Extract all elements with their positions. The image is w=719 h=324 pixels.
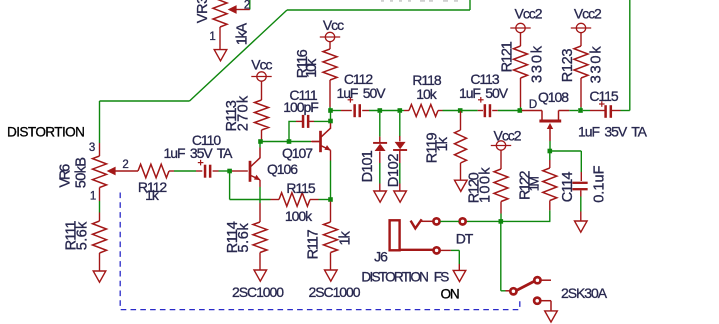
value 1uF 35V TA [164,145,234,161]
svg-text:DISTORTION: DISTORTION [7,125,84,140]
svg-text:330k: 330k [530,44,546,83]
svg-text:ON: ON [441,286,459,301]
ground [453,270,466,281]
label R119 [424,133,440,164]
svg-text:2: 2 [122,159,128,171]
resistor R117 [324,202,338,271]
svg-text:1M: 1M [528,177,542,192]
label R122 [518,171,534,200]
node [518,108,523,113]
wire [541,279,551,281]
wire [190,10,288,101]
resistor R118 [409,105,438,117]
label C114 [560,172,576,203]
label C111 [289,87,317,103]
ground [214,50,227,61]
svg-text:1uF 50V: 1uF 50V [336,85,386,101]
value 5.6k [75,221,91,250]
wire [232,170,248,172]
node [548,149,553,154]
svg-text:1kA: 1kA [235,23,251,46]
switch contact [510,288,516,294]
label Vcc (R113) [251,57,272,73]
label Q108 [538,89,569,105]
node [458,108,463,113]
wire [362,110,399,112]
svg-text:5.6k: 5.6k [75,221,91,250]
value 1uF 35V TA (C115) [578,123,648,139]
label R112 [138,179,167,195]
label DT [456,230,474,246]
resistor R116 [323,49,337,111]
label C112 [344,71,373,87]
label R123 [560,49,576,83]
wire [230,173,271,200]
svg-text:1: 1 [90,191,96,203]
switch lever [517,281,534,290]
svg-text:C115: C115 [589,88,618,104]
value 1M [528,177,542,192]
value 5.6k (R114) [236,223,252,253]
ground [394,191,407,202]
label C115 [589,88,618,104]
value 2SC1000 (Q107) [308,284,360,300]
label J6 [374,249,388,265]
label Vcc2 (R121) [515,6,543,22]
value 10k (R116) [304,58,320,78]
wire [611,0,630,111]
svg-text:100k: 100k [285,208,313,224]
value 1uF 50V (C112) [336,85,386,101]
ground [93,271,106,282]
resistor R121 [514,46,528,111]
wire [330,111,332,122]
transistor Q106 [250,148,260,182]
svg-text:1uF 35V TA: 1uF 35V TA [578,123,648,139]
label VR6 [57,164,73,188]
label ON [441,286,459,301]
node [378,108,383,113]
label 2SK30A [561,285,608,301]
svg-text:2: 2 [244,0,250,12]
wire [99,101,101,143]
wire [100,100,190,102]
label R111 [63,220,79,250]
label VR3 [195,0,211,23]
ground [374,191,387,202]
node [578,108,583,113]
wire [469,0,471,10]
value 270k [236,95,252,132]
node [227,169,232,174]
wire [580,190,582,221]
svg-text:Q106: Q106 [267,161,298,177]
power Vcc2 (R123) [571,23,591,46]
resistor R123 [574,46,588,111]
svg-text:Vcc: Vcc [251,57,272,73]
value 330k (R123) [589,45,605,84]
power Vcc (R116) [320,32,340,49]
resistor R115 [279,193,310,207]
label Vcc2 (R123) [574,6,602,22]
svg-text:Vcc: Vcc [323,17,344,33]
wire [261,141,290,143]
value 1k [145,187,160,203]
label DISTORTION FS [361,269,449,284]
value 1kA [235,23,251,46]
value 1uF 50V (C113) [459,85,509,101]
svg-text:1k: 1k [145,187,160,203]
wire [440,250,459,270]
value 330k (R121) [530,44,546,83]
svg-text:2SK30A: 2SK30A [561,285,608,301]
svg-text:Vcc2: Vcc2 [494,128,522,144]
wire [500,221,502,290]
wire [583,110,606,112]
svg-text:DT: DT [456,230,474,246]
capacitor C111 [303,115,308,128]
resistor R120 [494,169,508,221]
wire [550,151,582,181]
label D102 [386,154,402,188]
power Vcc2 (R121) [510,23,530,46]
label R117 [305,229,321,259]
label Q107 [282,145,313,161]
svg-text:D101: D101 [360,150,376,182]
node [287,139,292,144]
node [258,139,263,144]
wire [438,110,460,112]
wire [332,110,352,112]
svg-text:VR3: VR3 [195,0,211,23]
label R121 [500,41,516,72]
switch contact [460,218,466,224]
wire [271,199,331,201]
transistor Q107 [312,122,331,152]
ground [575,221,588,232]
svg-text:100pF: 100pF [283,99,318,115]
resistor R122 [543,168,557,221]
diode D102 [393,113,407,191]
node [328,119,333,124]
potentiometer VR6 [93,143,139,188]
wire [549,141,551,151]
switch contact [433,218,439,224]
capacitor C114 [572,183,587,189]
diode D101 [373,113,387,191]
node [328,108,333,113]
svg-text:100k: 100k [478,166,494,203]
wire [330,150,332,199]
connector J6 [390,219,433,250]
svg-text:3: 3 [89,142,95,154]
pin 2 VR3 [244,0,250,12]
resistor R114 [253,222,267,270]
svg-text:Vcc2: Vcc2 [515,6,543,22]
resistor R113 [255,100,269,142]
svg-text:Q107: Q107 [282,145,313,161]
switch contact [534,277,540,283]
svg-text:1uF 50V: 1uF 50V [459,85,509,101]
svg-text:R117: R117 [305,229,321,259]
capacitor C113 [478,97,490,117]
capacitor C110 [198,160,210,178]
label R115 [286,180,315,196]
svg-text:J6: J6 [374,249,388,265]
resistor R119 [455,111,467,181]
resistor R111 [93,221,107,271]
value 100pF [283,99,318,115]
svg-text:10k: 10k [416,86,437,102]
capacitor C115 [599,101,611,118]
value 1k (R119) [435,136,451,151]
label Vcc (R116) [323,17,344,33]
svg-text:VR6: VR6 [57,164,73,188]
svg-text:R121: R121 [500,41,516,72]
pin 2 VR6 [122,159,128,171]
label R116 [295,49,311,78]
svg-text:50kB: 50kB [74,158,90,188]
net label DISTORTION [7,125,84,140]
label C113 [470,71,499,87]
gray cut-off text remnants [381,0,458,2]
wire [169,170,202,172]
ground [254,270,267,281]
transistor Q108 [522,111,570,142]
label C110 [192,132,221,148]
pin 1 VR6 [90,191,96,203]
svg-text:C114: C114 [560,172,576,203]
svg-text:Vcc2: Vcc2 [574,6,602,22]
ground [325,270,338,281]
switch contact [534,298,540,304]
svg-text:1: 1 [209,31,215,43]
svg-text:10k: 10k [304,58,320,78]
wire [501,290,510,292]
label D101 [360,150,376,182]
switch contact [434,247,440,253]
wire [259,180,261,222]
pin label D [529,99,537,111]
power Vcc [251,72,271,100]
wire [541,301,551,311]
svg-text:D102: D102 [386,154,402,188]
wire [99,188,101,222]
label R118 [412,72,441,88]
value 50kB [74,158,90,188]
wire [309,120,330,122]
node [328,197,333,202]
svg-text:5.6k: 5.6k [236,223,252,253]
svg-text:2SC1000: 2SC1000 [308,284,360,300]
svg-text:270k: 270k [236,95,252,132]
ground [545,311,558,322]
wire [492,110,519,112]
label R114 [225,221,241,253]
svg-text:1uF 35V TA: 1uF 35V TA [164,145,234,161]
wire [569,110,578,112]
svg-text:1k: 1k [338,230,354,245]
node [398,108,403,113]
wire [440,220,459,222]
wire [400,110,409,112]
wire [460,110,483,112]
resistor R112 [138,164,169,178]
capacitor C112 [348,97,360,117]
pin 3 VR6 [89,142,95,154]
value 10k (R118) [416,86,437,102]
sheet boundary (dashed) [120,193,520,310]
label R113 [224,100,240,131]
svg-text:330k: 330k [589,45,605,84]
wire [213,170,232,172]
value 100k (R120) [478,166,494,203]
wire [287,9,470,11]
node [499,219,504,224]
svg-text:D: D [529,99,537,111]
value 1k (R117) [338,230,354,245]
wire [549,153,551,169]
value 0.1uF [592,165,608,202]
svg-text:R115: R115 [286,180,315,196]
pin 1 VR3 [209,31,215,43]
label R120 [466,172,482,203]
label Vcc2 (R120) [494,128,522,144]
wire [466,220,550,222]
label Q106 [267,161,298,177]
ground [455,180,468,191]
value 100k (R115) [285,208,313,224]
potentiometer VR3 [213,0,250,49]
svg-text:2SC1000: 2SC1000 [232,284,284,300]
power Vcc2 (R120) [491,141,511,169]
wire [259,142,261,148]
wire [289,141,319,143]
svg-text:0.1uF: 0.1uF [592,165,608,202]
wire [289,121,302,140]
svg-text:1k: 1k [435,136,451,151]
wire [249,0,251,10]
svg-text:R123: R123 [560,49,576,83]
svg-text:Q108: Q108 [538,89,569,105]
svg-text:DISTORTION FS: DISTORTION FS [361,269,449,284]
value 2SC1000 (Q106) [232,284,284,300]
